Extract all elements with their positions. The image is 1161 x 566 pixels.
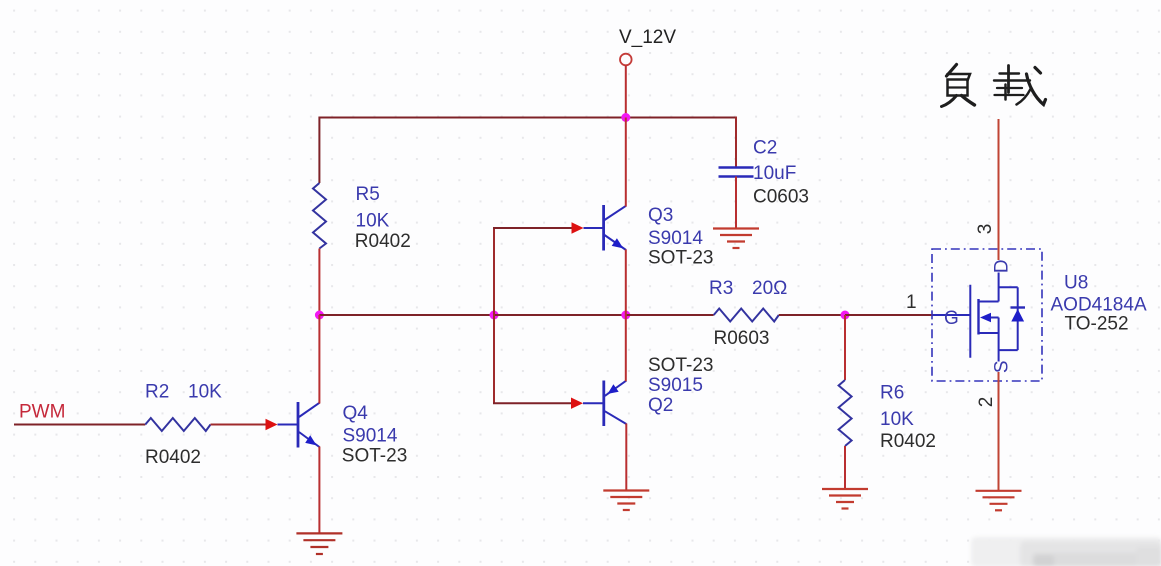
svg-text:1: 1 (906, 292, 917, 313)
wire Q3 emitter down to output node (625, 250, 627, 316)
wire R5 bottom (318, 249, 320, 316)
svg-text:S: S (992, 360, 1013, 373)
ground below Q2 (603, 491, 649, 511)
svg-text:R0603: R0603 (714, 328, 770, 349)
base arrow Q2 (571, 398, 583, 409)
net label load (fu zai) drawn glyphs (942, 65, 1046, 107)
svg-text:C0603: C0603 (753, 187, 809, 208)
svg-text:10K: 10K (356, 211, 390, 232)
wire PWM input (14, 424, 145, 426)
svg-text:SOT-23: SOT-23 (342, 445, 407, 466)
svg-text:R0402: R0402 (145, 447, 201, 468)
resistor R6 (839, 380, 852, 446)
wire top bus (319, 117, 736, 119)
wire V_12V stub (625, 66, 627, 118)
svg-text:R0402: R0402 (880, 431, 936, 452)
base arrow Q4 (266, 419, 278, 430)
svg-text:C2: C2 (753, 138, 777, 159)
mosfet U8 symbol (970, 273, 1025, 362)
wire R6 bottom to ground (844, 446, 846, 489)
ground below Q4 (296, 533, 342, 554)
svg-text:10K: 10K (188, 382, 222, 403)
component body outline U8 (dash-dot box) (932, 249, 1042, 381)
mosfet U8 bulk arrow (980, 313, 991, 322)
emitter arrow Q4 (305, 435, 316, 445)
ground below C2 (713, 229, 759, 249)
wire Q2 base horizontal (493, 402, 576, 404)
junction R6 tee (841, 311, 850, 320)
svg-text:S9014: S9014 (648, 228, 703, 249)
power port circle V_12V (620, 54, 632, 66)
wire base vertical (Q3/Q2 bases) (493, 228, 495, 403)
resistor R3 (714, 309, 779, 322)
svg-text:G: G (944, 308, 959, 329)
svg-text:R0402: R0402 (355, 231, 411, 252)
svg-text:Q2: Q2 (648, 395, 673, 416)
svg-text:S9015: S9015 (648, 375, 703, 396)
wire mid bus center (494, 314, 626, 316)
svg-text:SOT-23: SOT-23 (648, 355, 713, 376)
resistor R5 (313, 183, 326, 249)
wire load to U8 drain (pin 3) (998, 119, 1000, 260)
svg-text:Q4: Q4 (343, 403, 369, 424)
wire R6 branch top (844, 315, 846, 380)
watermark bottom right (971, 537, 1161, 566)
capacitor C2 branch wire top (735, 117, 737, 167)
svg-text:3: 3 (975, 224, 996, 235)
junction mid bus at R5/Q4 node (315, 311, 324, 320)
wire R5 branch top (318, 117, 320, 184)
transistor Q2 (PNP S9015) (583, 381, 626, 427)
emitter arrow Q3 (612, 238, 624, 248)
svg-text:PWM: PWM (19, 402, 65, 423)
svg-text:TO-252: TO-252 (1065, 314, 1129, 335)
svg-text:R5: R5 (356, 184, 380, 205)
wire U8 source (pin 2) down to ground (998, 372, 1000, 491)
resistor R2 (145, 418, 210, 431)
svg-text:S9014: S9014 (343, 425, 398, 446)
transistor Q3 (NPN S9014) (584, 205, 627, 251)
wire Q4 emitter down to ground (318, 447, 320, 534)
wire R2 to Q4 base (211, 424, 269, 426)
wire Q2 collector down to ground (625, 424, 627, 491)
capacitor C2 (719, 168, 754, 177)
wire output node to R3 (626, 314, 714, 316)
transistor Q4 (NPN S9014) (278, 402, 320, 448)
wire C2 bottom (735, 177, 737, 229)
wire R6 node to U8 gate (845, 314, 933, 316)
junction base tee (490, 311, 499, 320)
mosfet U8 body diode (1011, 309, 1024, 322)
svg-text:D: D (992, 259, 1013, 273)
svg-text:Q3: Q3 (648, 205, 673, 226)
wire R3 to R6 node (779, 314, 845, 316)
ground below U8 (976, 491, 1022, 511)
svg-text:10uF: 10uF (753, 163, 796, 184)
svg-text:AOD4184A: AOD4184A (1051, 295, 1147, 316)
svg-text:2: 2 (976, 397, 997, 408)
wire mid bus left (319, 314, 494, 316)
base arrow Q3 (572, 222, 584, 233)
wire Q2 emitter up to output node (625, 315, 627, 381)
U8 gate pin line (933, 314, 970, 316)
junction V_12V / top bus (621, 113, 630, 122)
ground below R6 (822, 489, 868, 509)
svg-text:U8: U8 (1064, 273, 1088, 294)
svg-text:10K: 10K (880, 409, 914, 430)
svg-text:V_12V: V_12V (619, 27, 676, 48)
svg-text:20Ω: 20Ω (752, 278, 787, 299)
svg-text:R6: R6 (880, 383, 904, 404)
svg-text:SOT-23: SOT-23 (648, 248, 713, 269)
wire Q3 collector up to top bus (625, 118, 627, 207)
svg-text:R2: R2 (145, 382, 169, 403)
junction output node (621, 311, 630, 320)
wire Q4 collector up to mid node (318, 315, 320, 404)
svg-text:R3: R3 (709, 278, 733, 299)
wire Q3 base horizontal (493, 227, 576, 229)
emitter arrow Q2 (points toward base bar) (608, 384, 619, 394)
